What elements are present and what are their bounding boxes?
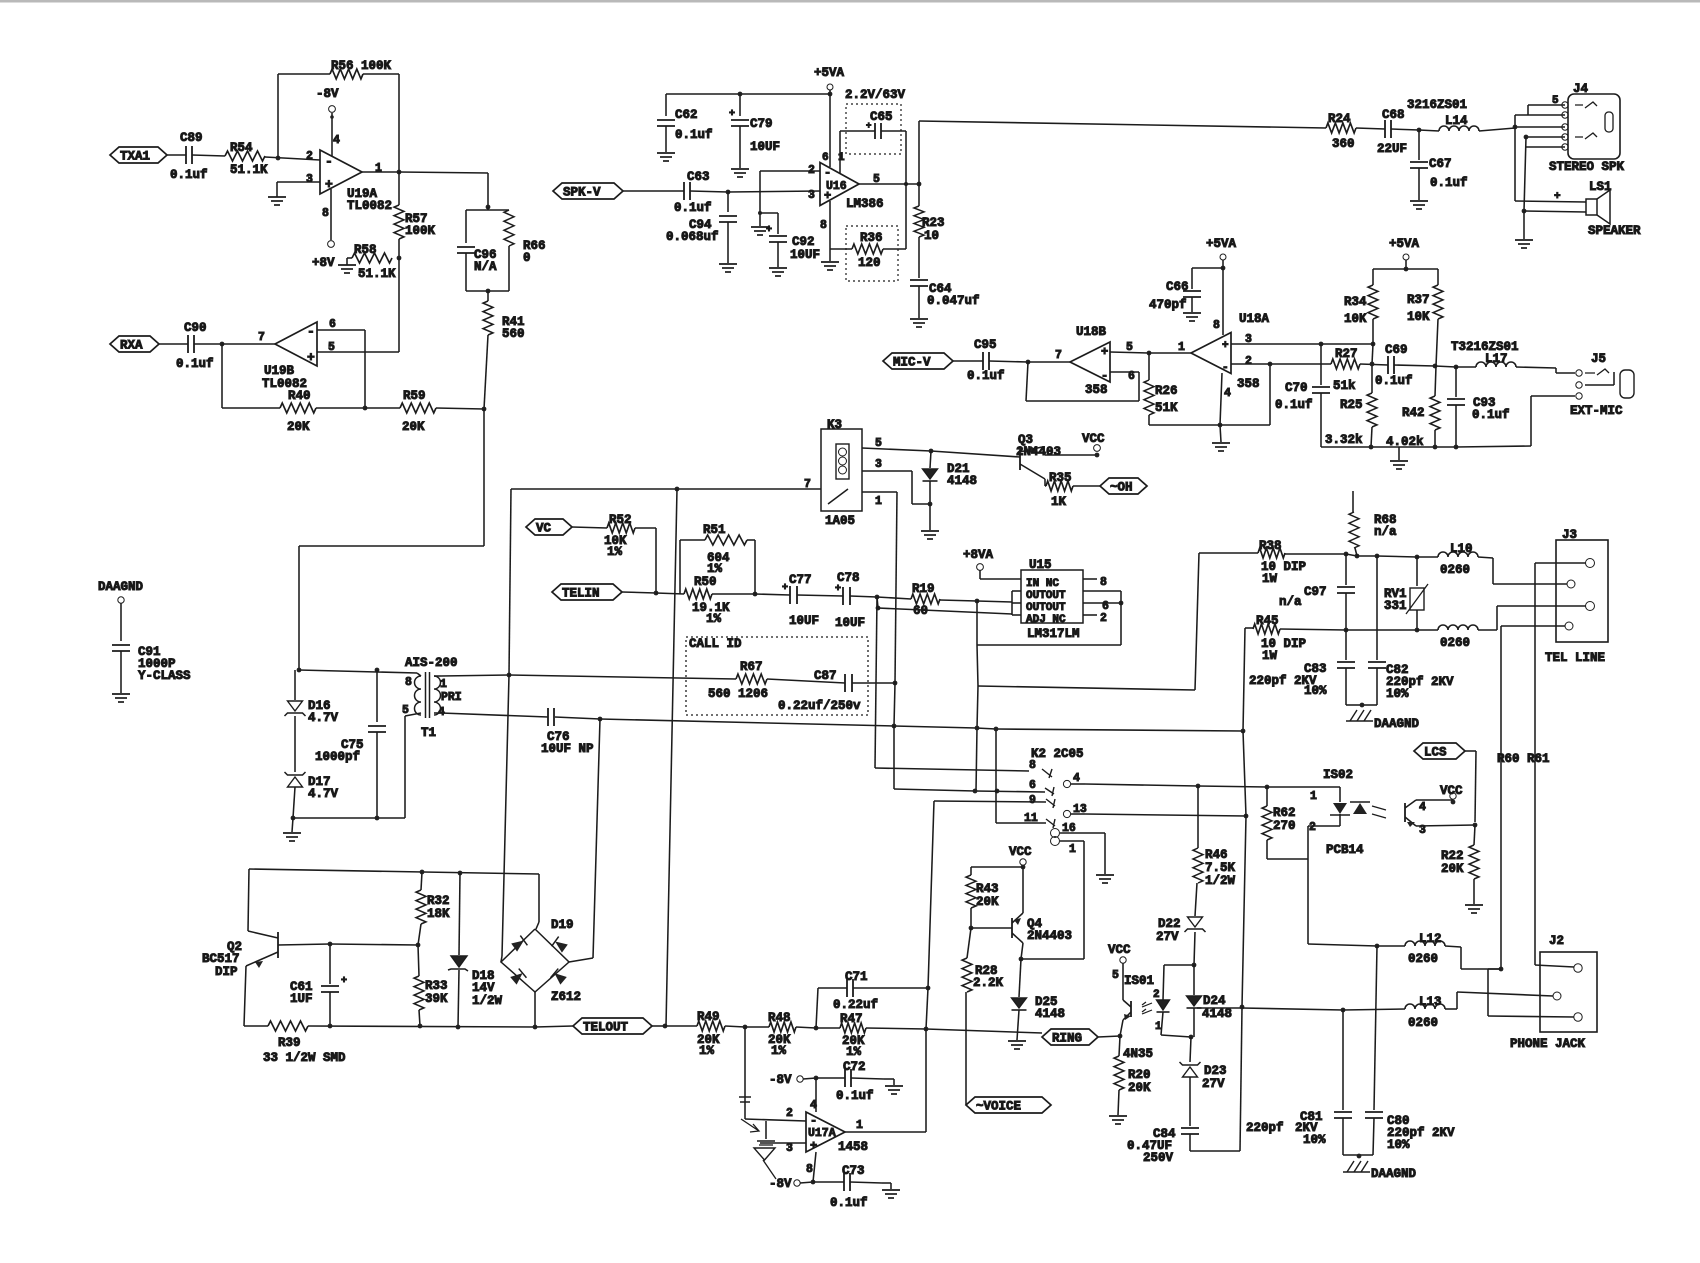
wire U19A output: [362, 171, 399, 173]
svg-text:0.1uf: 0.1uf: [836, 1089, 874, 1103]
svg-text:1000pf: 1000pf: [315, 750, 360, 764]
resistor R19 60: [877, 597, 911, 599]
ground DAAGND bottom symbol: [1343, 1171, 1370, 1173]
wire U18A pin3 line: [1231, 343, 1321, 345]
wire rail left corner down to Q2 collector: [248, 869, 249, 931]
wire D17 to bottom node: [293, 787, 295, 818]
wire R67 to C87: [767, 679, 845, 683]
zener diode D22 27V: [1188, 917, 1203, 927]
wire IS02 emitter to R22: [1416, 825, 1475, 826]
wire RV1 node to L10: [1417, 556, 1438, 558]
wire R58 node down to U19B pin5: [398, 258, 400, 352]
wire TELIN junction to R50: [656, 593, 684, 594]
resistor R42 4.02k: [1430, 396, 1440, 430]
svg-text:C72: C72: [843, 1060, 866, 1074]
wire U17A pin3 line: [760, 1142, 806, 1144]
capacitor C94 0.068uf: [727, 192, 729, 212]
svg-text:+: +: [1101, 345, 1108, 359]
wire U16 pin6 to +5VA rail: [829, 94, 831, 167]
node TELOUT tag: [573, 1018, 652, 1034]
ground below C92: [769, 267, 787, 269]
svg-text:0260: 0260: [1440, 563, 1470, 577]
svg-text:K2 2C05: K2 2C05: [1031, 747, 1084, 761]
wire to L13: [1343, 1009, 1405, 1010]
svg-text:T1: T1: [421, 726, 436, 740]
resistor R62 270: [1266, 787, 1268, 806]
svg-text:10UF: 10UF: [750, 140, 780, 154]
svg-text:PHONE JACK: PHONE JACK: [1510, 1037, 1586, 1051]
wire RXA to C90: [159, 343, 188, 345]
svg-text:18K: 18K: [427, 907, 450, 921]
wire RING to IS01 node: [1098, 1036, 1120, 1037]
svg-text:OUTOUT: OUTOUT: [1026, 590, 1066, 602]
wire C90 to junction: [194, 343, 222, 345]
varistor RV1 331: [1416, 557, 1418, 586]
node TELOUT junction: [663, 1024, 668, 1029]
wire R50 to node: [712, 593, 755, 595]
svg-text:R27: R27: [1335, 347, 1358, 361]
zener diode D23 27V: [1190, 1037, 1191, 1062]
resistor R68 n/a with tall stub: [1352, 491, 1354, 512]
wire bottom rail left: [244, 1025, 268, 1027]
wire coil pin1 to Q4 collector: [1060, 840, 1084, 842]
wire pin1 rail into CALL ID box to R67: [509, 675, 736, 679]
wire R34 to pin3 line and R25: [1372, 319, 1374, 344]
ground below C64: [910, 318, 928, 320]
svg-text:39K: 39K: [425, 992, 448, 1006]
svg-text:R48: R48: [768, 1011, 791, 1025]
wire bottom rail: [1321, 446, 1456, 448]
wire R43 to base node: [970, 908, 972, 928]
svg-text:27V: 27V: [1156, 930, 1179, 944]
svg-text:R50: R50: [694, 575, 717, 589]
node pin4 junction: [1218, 423, 1223, 428]
node VCC/R43 junction: [1021, 865, 1026, 870]
svg-text:10UF: 10UF: [790, 248, 820, 262]
svg-text:2: 2: [1100, 612, 1107, 625]
svg-text:7.5K: 7.5K: [1205, 861, 1236, 875]
svg-text:L12: L12: [1419, 932, 1442, 946]
svg-text:C90: C90: [184, 321, 207, 335]
ground below C91: [112, 693, 130, 695]
svg-text:R45: R45: [1256, 614, 1279, 628]
svg-text:~OH: ~OH: [1110, 481, 1133, 495]
wire K2 pin11 contact line: [996, 822, 1046, 824]
svg-text:1: 1: [875, 495, 882, 508]
wire contact4 line to IS02: [1085, 784, 1198, 786]
capacitor C92 10UF polarized: [758, 211, 762, 215]
svg-text:7: 7: [804, 478, 811, 491]
wire to ground: [1523, 211, 1525, 239]
node C76 line / V2 junction: [598, 717, 603, 722]
svg-text:AIS-200: AIS-200: [405, 656, 458, 670]
svg-text:C62: C62: [675, 108, 698, 122]
svg-text:STEREO SPK: STEREO SPK: [1549, 160, 1625, 174]
resistor R25 3.32k: [1367, 393, 1377, 427]
svg-text:+: +: [866, 121, 871, 131]
wire to R68 node: [1346, 554, 1357, 556]
capacitor C81 220pf 2KV 10%: [1342, 1010, 1344, 1110]
resistor R48 20K 1%: [745, 1026, 769, 1028]
svg-text:560 1206: 560 1206: [708, 687, 768, 701]
node VC input tag: [526, 519, 572, 535]
node C70 top junction: [1319, 342, 1324, 347]
wire C78 riser down to K2 pin8: [875, 597, 877, 768]
svg-text:R35: R35: [1049, 471, 1072, 485]
svg-text:C67: C67: [1429, 157, 1452, 171]
wire bridge bottom to rail: [534, 992, 536, 1027]
node DAAGND bottom junction: [1357, 1154, 1362, 1159]
wire U15 output loop back to R19 node: [1120, 591, 1122, 645]
resistor R39 33 1/2W SMD: [268, 1021, 308, 1031]
svg-text:5: 5: [1112, 969, 1119, 982]
svg-text:R37: R37: [1407, 293, 1430, 307]
wire rail to transformer pin 8: [299, 670, 417, 673]
capacitor C71 0.22uf feedback: [816, 988, 818, 1028]
node D21 cathode junction: [928, 502, 933, 507]
ground below R22: [1465, 904, 1483, 906]
node C78 output junction: [875, 595, 880, 600]
wire R45 to C83 node: [1280, 629, 1346, 630]
wire V2 riser to bridge right corner: [593, 719, 600, 958]
capacitor C97 n/a: [1345, 554, 1347, 585]
svg-text:0.1uf: 0.1uf: [967, 369, 1005, 383]
svg-text:1: 1: [838, 152, 845, 164]
node R62 top junction: [1265, 785, 1270, 790]
ground below D21: [921, 530, 939, 532]
wire output to C96 box: [399, 172, 488, 173]
capacitor C91 1000P Y-CLASS: [112, 644, 130, 646]
wire R28 down to VOICE: [965, 992, 967, 1098]
wire rail to TELOUT tag: [535, 1026, 573, 1027]
wire U18A pin4 to ground: [1220, 373, 1222, 425]
node R59/R41 junction: [482, 407, 487, 412]
wire SPK-V to C63: [623, 190, 684, 192]
wire L13 to J2 pin2: [1445, 1008, 1457, 1010]
resistor R50 19.1K 1%: [684, 589, 712, 599]
svg-text:1K: 1K: [1051, 495, 1067, 509]
svg-text:51k: 51k: [1333, 379, 1356, 393]
resistor R46 7.5K 1/2W: [1197, 786, 1199, 848]
wire VC to R52: [572, 527, 607, 528]
resistor R43 20K: [966, 875, 976, 908]
node R19 vertical / C76 line junction: [975, 726, 980, 731]
capacitor C78 10UF: [797, 595, 843, 596]
wire R59 to R41 node: [436, 408, 484, 409]
resistor R56 100K feedback: [278, 73, 330, 75]
resistor R52 10K 1%: [607, 523, 635, 533]
wire bottom rail middle: [308, 1026, 535, 1027]
svg-text:20K: 20K: [1441, 862, 1464, 876]
svg-text:0.047uf: 0.047uf: [927, 294, 980, 308]
resistor R33 39K: [418, 945, 419, 976]
svg-text:10UF: 10UF: [835, 616, 865, 630]
top edge scan line: [0, 0, 1700, 3]
svg-text:-8V: -8V: [769, 1073, 792, 1087]
node bottom rail junctions: [1369, 445, 1374, 450]
wire V-k riser down to node X: [1243, 731, 1246, 816]
svg-text:4: 4: [1073, 772, 1080, 785]
wire U19B pin6: [317, 329, 365, 331]
svg-text:R34: R34: [1344, 295, 1367, 309]
svg-text:J5: J5: [1591, 352, 1606, 366]
node R49/R48 junction: [743, 1025, 748, 1030]
capacitor C62 0.1uf: [665, 94, 667, 116]
svg-text:R62: R62: [1273, 806, 1296, 820]
svg-text:+: +: [766, 225, 772, 236]
wire R19 to U15 node: [940, 600, 977, 601]
svg-text:L13: L13: [1419, 995, 1442, 1009]
svg-text:60: 60: [913, 604, 928, 618]
svg-text:0.1uf: 0.1uf: [1472, 408, 1510, 422]
wire L10 to J3 pin2: [1478, 557, 1493, 558]
node R50/R51 right junction: [753, 592, 758, 597]
wire R38 left riser: [1195, 553, 1199, 690]
svg-text:-: -: [307, 324, 315, 339]
ground at U19A pin3: [268, 196, 286, 198]
node VOICE tag: [966, 1097, 1051, 1113]
wire R25 to bottom rail: [1371, 427, 1372, 447]
capacitor C96 N/A with resistor R66 0 parallel box: [466, 209, 509, 211]
svg-text:20K: 20K: [976, 895, 999, 909]
ground below D25: [1008, 1040, 1026, 1042]
svg-text:27V: 27V: [1202, 1077, 1225, 1091]
wire to RV1 bottom: [1346, 629, 1417, 631]
node emitter/LCS junction: [1473, 823, 1478, 828]
node R47 right junction: [924, 1027, 929, 1032]
resistor R58 51.1K: [352, 253, 392, 263]
svg-text:EXT-MIC: EXT-MIC: [1570, 404, 1623, 418]
wire K2 pin6 contact line: [975, 791, 1045, 792]
node U18B pin5 / U18A in junction: [1147, 351, 1152, 356]
wire pin8 stub: [813, 1152, 816, 1182]
svg-text:-8V: -8V: [769, 1177, 792, 1191]
diode D25 4148: [1019, 959, 1021, 997]
svg-text:0.1uf: 0.1uf: [674, 201, 712, 215]
wire V3 riser from K3 pin7 line: [675, 487, 680, 492]
node pin1 rail / K3 pin7 junction: [507, 673, 512, 678]
svg-text:1458: 1458: [838, 1140, 868, 1154]
resistor R49 20K 1%: [697, 1021, 725, 1031]
node C96 box top: [486, 205, 491, 210]
wire R22 to ground: [1473, 879, 1475, 904]
svg-text:470pf: 470pf: [1149, 298, 1187, 312]
resistor R38 10 DIP 1W: [1199, 552, 1258, 554]
capacitor C73 0.1uf: [813, 1181, 844, 1183]
wire transformer pin8 lead: [417, 673, 421, 676]
capacitor C68 22UF: [1384, 120, 1386, 138]
wire R42 to bottom rail: [1434, 430, 1436, 447]
svg-text:10K: 10K: [1407, 310, 1430, 324]
svg-text:3: 3: [306, 173, 313, 186]
svg-text:Z612: Z612: [551, 990, 581, 1004]
svg-text:+: +: [325, 177, 333, 192]
svg-text:0260: 0260: [1440, 636, 1470, 650]
node C80 top junction: [1375, 944, 1380, 949]
svg-text:R22: R22: [1441, 849, 1464, 863]
wire ADJ parallel line from C78 junction: [876, 606, 881, 611]
svg-text:C89: C89: [180, 131, 203, 145]
ground below C66: [1183, 312, 1201, 314]
wire Q4 collector down: [1021, 943, 1023, 959]
wire R45 left riser down to C76 line: [1243, 628, 1245, 731]
svg-text:1%: 1%: [607, 545, 623, 559]
wire L12 to J2: [1445, 946, 1461, 947]
svg-text:2: 2: [1153, 989, 1160, 1001]
ground at U16 pin8: [821, 261, 839, 263]
svg-text:+8VA: +8VA: [963, 548, 994, 562]
svg-text:1UF: 1UF: [290, 992, 313, 1006]
svg-text:2N4403: 2N4403: [1027, 929, 1072, 943]
wire arrow diagonal at U17A input: [741, 1119, 759, 1132]
capacitor C77 10UF: [755, 594, 790, 595]
wire base line to R32/R33 node: [330, 944, 418, 945]
node K3 pin5 / D21 junction: [929, 449, 934, 454]
resistor R37 10K: [1433, 285, 1443, 319]
wire J4 pin lines: [1528, 104, 1565, 106]
svg-text:TELOUT: TELOUT: [583, 1021, 629, 1035]
node bottom rail junctions: [328, 1024, 333, 1029]
resistor R32 18K: [421, 872, 422, 890]
resistor R51 604 1% bypass: [679, 540, 681, 594]
node R40/R59/pin6 junction: [363, 406, 368, 411]
svg-text:C92: C92: [792, 235, 815, 249]
op-amp U17A 1458: [806, 1112, 845, 1152]
wire U19A pin 3 to ground: [277, 181, 320, 183]
svg-text:2N4403: 2N4403: [1016, 445, 1061, 459]
wire collector to K2 coil riser: [1021, 958, 1084, 960]
wire +5VA to C66: [1192, 267, 1223, 269]
relay K2 common contact 13: [1063, 810, 1070, 817]
svg-text:9: 9: [1029, 794, 1036, 807]
svg-text:n/a: n/a: [1374, 525, 1397, 539]
svg-text:-: -: [824, 166, 831, 180]
svg-text:1W: 1W: [1262, 572, 1278, 586]
svg-text:D22: D22: [1158, 917, 1181, 931]
node R34 riser junction: [1371, 342, 1376, 347]
wire junction to U18B output: [1028, 361, 1070, 363]
wire junction down to R40: [221, 344, 223, 408]
node RING tag: [1042, 1029, 1098, 1045]
svg-text:3: 3: [808, 189, 815, 202]
svg-text:R52: R52: [609, 513, 632, 527]
node D22/D24/LED junction: [1192, 963, 1197, 968]
wire C63 to junction: [690, 191, 728, 192]
svg-text:250V: 250V: [1143, 1151, 1174, 1165]
wire R60 riser down to J2: [1534, 563, 1536, 963]
svg-text:R51: R51: [703, 523, 726, 537]
relay K2 common contact 4: [1063, 780, 1070, 787]
svg-text:10K: 10K: [1344, 312, 1367, 326]
node R45 corner junction: [1241, 729, 1246, 734]
svg-text:4148: 4148: [1035, 1007, 1065, 1021]
svg-text:R39: R39: [278, 1036, 301, 1050]
node C71 right junction: [926, 986, 931, 991]
wire TELOUT to R49: [665, 1025, 697, 1027]
relay K2 coil: [1051, 829, 1060, 838]
wire IS02 collector to VCC: [1416, 799, 1453, 801]
wire TELOUT to junction: [652, 1025, 665, 1027]
svg-text:4N35: 4N35: [1123, 1047, 1153, 1061]
node TXA1 input tag: [110, 147, 167, 163]
node +5VA rail junction: [828, 92, 833, 97]
node CALL ID dashed box: [686, 637, 868, 715]
wire K3 pin3: [862, 470, 912, 472]
diode D21 4148: [930, 451, 931, 468]
wire junction up to R56: [277, 74, 279, 158]
wire R48 to node: [796, 1027, 816, 1028]
wire R46 to D22: [1195, 883, 1197, 916]
svg-text:R24: R24: [1328, 112, 1351, 126]
svg-text:1%: 1%: [846, 1045, 862, 1059]
zener diode D17 4.7V: [285, 772, 306, 775]
svg-text:R59: R59: [403, 389, 426, 403]
svg-text:R26: R26: [1155, 384, 1178, 398]
svg-text:+: +: [341, 976, 347, 987]
wire U18B pin6 feedback loop: [1110, 371, 1139, 373]
svg-text:R49: R49: [697, 1010, 720, 1024]
wire U16 pin1 to C65: [839, 131, 841, 173]
svg-text:1/2W: 1/2W: [1205, 874, 1236, 888]
svg-text:SPK-V: SPK-V: [563, 186, 601, 200]
wire U16 pin5 output: [859, 183, 919, 185]
svg-text:DIP: DIP: [215, 965, 238, 979]
wire node to U18A input: [1149, 352, 1191, 354]
wire K2 pin9 contact line: [934, 801, 1046, 802]
wire K3 pin5 to junction: [862, 448, 931, 451]
ground below C62: [657, 152, 675, 154]
capacitor C63 0.1uf: [683, 182, 685, 200]
wire base node to Q4: [971, 927, 1012, 929]
capacitor C66 470pf: [1191, 268, 1193, 289]
svg-text:0260: 0260: [1408, 952, 1438, 966]
resistor R28 2.2K: [967, 928, 971, 958]
svg-text:+: +: [835, 584, 841, 595]
svg-text:C97: C97: [1304, 585, 1327, 599]
svg-text:270: 270: [1273, 819, 1296, 833]
wire speaker minus: [1524, 211, 1586, 212]
node junction R54/R56: [276, 156, 281, 161]
svg-text:7: 7: [1055, 349, 1062, 362]
svg-text:TXA1: TXA1: [120, 150, 150, 164]
svg-text:D23: D23: [1204, 1064, 1227, 1078]
wire TELIN to junction: [622, 592, 656, 593]
svg-text:C71: C71: [845, 970, 868, 984]
node R42 top junction: [1433, 364, 1438, 369]
node C87 right junction: [893, 681, 898, 686]
svg-text:R40: R40: [288, 389, 311, 403]
resistor R23 10: [918, 184, 920, 206]
svg-text:6: 6: [1029, 779, 1036, 792]
op-amp U19B TL0082: [275, 322, 317, 366]
node C67 junction: [1417, 128, 1422, 133]
power VCC terminal at Q3: [1094, 445, 1101, 452]
svg-text:10%: 10%: [1387, 1138, 1410, 1152]
resistor R40 20K: [222, 407, 280, 409]
svg-text:1%: 1%: [706, 612, 722, 626]
svg-text:360: 360: [1332, 137, 1355, 151]
svg-text:5: 5: [875, 437, 882, 450]
svg-text:R20: R20: [1128, 1068, 1151, 1082]
resistor R36 120 in dashed box: [846, 226, 898, 281]
wire junction down to U17A pin2: [744, 1027, 746, 1119]
capacitor C64 0.047uf: [910, 279, 928, 281]
resistor R45 10 DIP 1W: [1245, 627, 1253, 629]
node X junction: [1240, 1005, 1245, 1010]
wire C84 loop back to node X: [1189, 1134, 1191, 1151]
node C76-line junction at x894: [892, 724, 897, 729]
wire U19B pin5 line: [317, 351, 399, 353]
